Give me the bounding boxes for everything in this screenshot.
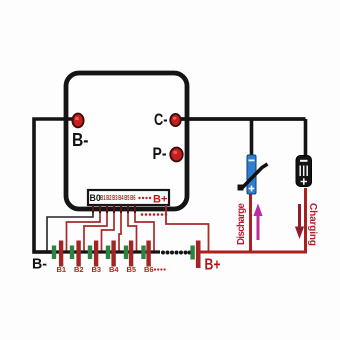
- svg-text:Charging: Charging: [307, 203, 318, 246]
- sense wire B1: [67, 213, 101, 251]
- cell B1 plates: [52, 246, 56, 260]
- cell B2 plates: [70, 246, 74, 260]
- dotted continuation wires: [141, 213, 168, 216]
- cell B3 plates: [88, 246, 92, 260]
- charger body: [296, 156, 312, 187]
- svg-text:B-: B-: [72, 130, 89, 150]
- wire ellipsis to last cell: [189, 251, 192, 254]
- wire down to charger: [304, 119, 308, 157]
- discharge red wire: [249, 194, 252, 252]
- pad C-: [170, 114, 180, 126]
- sense wire B4: [119, 213, 121, 251]
- svg-text:B2: B2: [106, 195, 111, 202]
- balance connector strip: [88, 190, 169, 205]
- cell B6 plates: [141, 246, 145, 260]
- svg-text:B3: B3: [92, 265, 102, 274]
- svg-text:B4: B4: [118, 195, 124, 202]
- svg-text:B+: B+: [153, 194, 167, 206]
- discharge up arrow: [257, 214, 260, 240]
- pad P-: [170, 148, 182, 162]
- svg-text:C-: C-: [154, 110, 168, 129]
- svg-text:B-: B-: [32, 257, 47, 273]
- cell B5 plates: [124, 246, 128, 260]
- strip B+ wire: [166, 205, 209, 252]
- svg-text:B+: B+: [205, 257, 221, 274]
- switch plus mark: [249, 186, 255, 192]
- svg-text:B1: B1: [57, 265, 67, 274]
- charger minus mark: [300, 160, 308, 162]
- wire B- pad to left rail and down to battery B-: [34, 119, 79, 252]
- svg-text:P-: P-: [153, 144, 167, 163]
- switch hinge: [238, 185, 244, 191]
- pad B-: [72, 114, 83, 128]
- red B+ rail: [200, 188, 306, 252]
- sense wire B2: [84, 213, 107, 251]
- svg-text:B6: B6: [144, 265, 154, 274]
- charger grill: [300, 166, 307, 177]
- sense wire B0: [47, 213, 93, 252]
- svg-text:B6: B6: [130, 195, 135, 202]
- charging down arrow: [298, 204, 301, 228]
- strip dots: [138, 197, 140, 199]
- svg-text:B1: B1: [100, 195, 106, 202]
- cell B4 plates: [106, 246, 110, 260]
- charger plus mark: [301, 178, 307, 184]
- svg-text:B2: B2: [74, 265, 84, 274]
- sense wire B6: [135, 213, 154, 251]
- svg-text:Discharge: Discharge: [236, 202, 247, 245]
- wire C- pad to right top rail: [176, 117, 306, 121]
- BMS board outline: [66, 73, 187, 209]
- battery ellipsis dots: [161, 251, 192, 255]
- switch blade: [242, 164, 268, 189]
- sense wire B3: [102, 213, 115, 251]
- strip pins: [93, 205, 135, 213]
- label dots after B6: [154, 268, 166, 270]
- svg-text:B4: B4: [109, 265, 119, 274]
- last cell plates: [190, 246, 194, 260]
- battery negative rail: [33, 250, 160, 253]
- discharge switch body: [247, 155, 256, 194]
- svg-text:B5: B5: [124, 195, 130, 202]
- switch minus mark: [249, 160, 255, 162]
- svg-text:B0: B0: [90, 193, 101, 203]
- strip labels B1-B6: [100, 195, 135, 202]
- wire down to discharge switch: [250, 119, 254, 156]
- sense wire B5: [128, 213, 137, 251]
- svg-text:B5: B5: [127, 265, 137, 274]
- svg-text:B3: B3: [112, 195, 117, 202]
